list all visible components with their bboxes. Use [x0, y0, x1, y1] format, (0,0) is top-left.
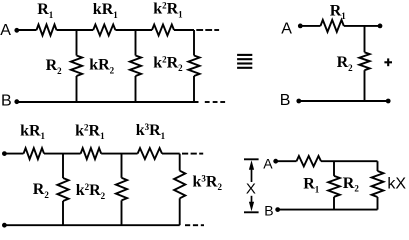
svg-text:B: B	[280, 92, 291, 109]
svg-text:k2​R1​: k2​R1​	[153, 1, 183, 20]
svg-text:k3​R1​: k3​R1​	[136, 122, 166, 141]
svg-text:R2​: R2​	[337, 54, 354, 73]
svg-text:k3​R2​: k3​R2​	[193, 173, 223, 192]
svg-text:k2​R2​: k2​R2​	[153, 54, 183, 73]
svg-text:k2​R2​: k2​R2​	[76, 182, 106, 201]
svg-text:k2​R1​: k2​R1​	[75, 122, 105, 141]
svg-text:R1​: R1​	[37, 1, 54, 20]
svg-text:A: A	[281, 20, 292, 37]
svg-text:kR2​: kR2​	[89, 57, 114, 76]
svg-text:R2​: R2​	[33, 181, 50, 200]
svg-text:B: B	[264, 203, 273, 219]
svg-text:kX: kX	[387, 176, 406, 193]
svg-text:kR1​: kR1​	[93, 1, 118, 20]
svg-text:X: X	[246, 180, 256, 197]
svg-text:kR1​: kR1​	[20, 122, 45, 141]
svg-text:B: B	[1, 93, 12, 110]
svg-text:R2​: R2​	[46, 57, 63, 76]
svg-text:R1​: R1​	[303, 176, 320, 195]
svg-text:R1​: R1​	[330, 2, 347, 21]
svg-text:A: A	[0, 22, 11, 39]
svg-text:A: A	[263, 156, 273, 172]
svg-text:R2​: R2​	[343, 175, 360, 194]
